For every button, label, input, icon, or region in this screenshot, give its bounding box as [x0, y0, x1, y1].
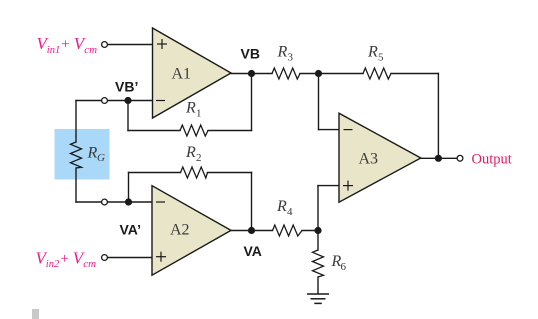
terminal VB' [102, 98, 108, 104]
node VB [248, 70, 255, 77]
svg-text:A3: A3 [359, 151, 379, 168]
svg-text:R: R [87, 145, 98, 162]
wire VB' terminal to A1 minus [108, 100, 153, 102]
svg-text:G: G [97, 152, 105, 164]
svg-text:in2: in2 [46, 259, 60, 270]
resistor R1 [180, 125, 208, 136]
label Vin2+Vcm [36, 248, 97, 270]
op-amp A3 [339, 113, 421, 202]
resistor R6 vertical [313, 250, 324, 277]
ground [307, 294, 329, 303]
svg-text:2: 2 [196, 152, 202, 164]
svg-text:cm: cm [83, 258, 96, 270]
wire R1 left segment [128, 130, 180, 132]
wire VA' terminal to A2 minus [108, 201, 153, 203]
svg-text:cm: cm [84, 44, 97, 56]
svg-text:VB: VB [241, 46, 260, 62]
wire R3R5 junction down to A3 minus [318, 74, 320, 130]
label Vin1+Vcm [37, 34, 98, 56]
svg-text:+: + [61, 37, 69, 53]
wire VB' node down [127, 101, 129, 131]
svg-text:R: R [185, 144, 196, 161]
svg-text:R: R [367, 44, 378, 61]
wire right down to output node [437, 74, 439, 159]
wire A2 output to R4 [231, 230, 273, 232]
wire R3 to R5 [300, 73, 363, 75]
terminal input2 [102, 255, 108, 261]
node VA' [125, 198, 132, 205]
svg-text:3: 3 [288, 52, 294, 64]
svg-text:6: 6 [341, 261, 347, 273]
node VB' [124, 97, 131, 104]
resistor R5 [363, 68, 391, 79]
node VA [248, 227, 255, 234]
svg-text:VA’: VA’ [120, 222, 142, 238]
svg-text:A2: A2 [170, 222, 190, 239]
resistor RG vertical [71, 142, 82, 168]
wire R4 to junction [302, 230, 318, 232]
svg-text:in1: in1 [47, 45, 60, 56]
wire VA' node up to R2 [128, 173, 130, 203]
svg-text:A1: A1 [172, 66, 192, 83]
RG highlight box [55, 129, 110, 180]
op-amp A1 [153, 28, 232, 118]
wire junction up to A3 plus [317, 186, 319, 231]
svg-text:R: R [276, 198, 287, 215]
op-amp A2 [152, 186, 231, 276]
svg-text:4: 4 [287, 206, 293, 218]
resistor R4 [273, 225, 303, 236]
svg-text:+: + [60, 251, 68, 267]
wire R5 to right corner [391, 73, 438, 75]
gray corner square [32, 309, 39, 319]
wire junction down to R6 [317, 231, 319, 251]
node R4-R6 junction [314, 227, 321, 234]
svg-text:VA: VA [244, 243, 262, 259]
wire input2 to A2 plus [108, 257, 153, 259]
svg-text:Output: Output [472, 152, 512, 168]
svg-text:R: R [277, 44, 288, 61]
resistor R2 [181, 167, 208, 178]
resistor R3 [272, 68, 300, 79]
node output [435, 155, 442, 162]
wire A3 output [421, 157, 457, 159]
wire input1 to A1 plus [108, 44, 153, 46]
wire A1 output to R3 [231, 73, 272, 75]
wire VB' terminal left to RG column [76, 100, 102, 102]
node R3-R5 junction [315, 70, 322, 77]
svg-text:5: 5 [378, 52, 384, 64]
svg-text:R: R [185, 100, 196, 117]
svg-text:1: 1 [196, 108, 202, 120]
wire VB node down to R1 [251, 74, 253, 131]
terminal VA' [102, 199, 108, 205]
terminal input1 [102, 42, 108, 48]
svg-text:VB’: VB’ [115, 78, 138, 94]
terminal output [457, 155, 463, 161]
